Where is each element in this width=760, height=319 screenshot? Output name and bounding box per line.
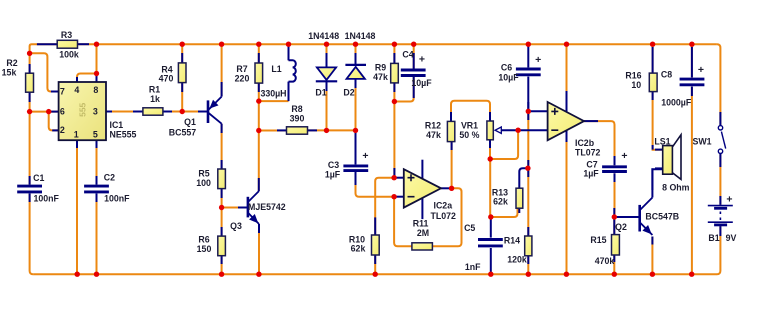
capacitor C1	[17, 186, 42, 192]
wire IC2b plus node down to node J	[527, 111, 529, 168]
wire node B to R6	[221, 208, 223, 237]
op-amp IC2b TL072	[548, 102, 584, 140]
svg-text:B1: B1	[708, 233, 719, 243]
wire D2 bottom to node F	[355, 79, 357, 131]
battery B1 9V	[708, 206, 733, 225]
svg-text:1k: 1k	[150, 94, 160, 104]
wire R1 to node A	[163, 111, 182, 113]
svg-text:TL072: TL072	[575, 147, 601, 157]
svg-text:+: +	[621, 150, 627, 162]
svg-text:Q2: Q2	[615, 222, 627, 232]
wire D2 top to supply	[355, 44, 357, 65]
wire R12 top over to VR1 top	[451, 101, 490, 122]
wire C1 bottom to ground rail	[30, 194, 33, 275]
op IC1 NE555 body	[59, 82, 106, 140]
svg-text:47k: 47k	[373, 72, 388, 82]
svg-text:15k: 15k	[2, 68, 17, 78]
resistor R5	[218, 169, 226, 189]
transistor Q2 BC547B	[640, 198, 653, 236]
wire node H down to node I	[489, 159, 491, 217]
wire node G to IC2a non-inverting input	[393, 102, 395, 178]
svg-text:150: 150	[197, 244, 212, 254]
svg-text:C2: C2	[104, 173, 115, 183]
wire node D down to Q3 collector	[258, 131, 260, 192]
wire C4 top to supply	[413, 44, 415, 68]
wire node E to node F	[327, 129, 356, 131]
wire R15 bottom to ground	[613, 255, 615, 274]
wire Q1 emitter to supply	[221, 44, 223, 96]
svg-text:100k: 100k	[59, 49, 79, 59]
svg-text:47k: 47k	[426, 130, 441, 140]
wire node I hook to R13 bottom	[491, 208, 518, 217]
capacitor C7	[602, 167, 627, 172]
svg-text:100: 100	[196, 178, 211, 188]
wire top-left corner down to R2/R3 node	[30, 44, 32, 53]
svg-text:BC547B: BC547B	[645, 212, 679, 222]
wire bottom ground rail	[33, 273, 717, 275]
svg-text:SW1: SW1	[692, 137, 711, 147]
wire battery minus to bottom-right corner	[717, 226, 721, 274]
op-amp IC2a TL072	[421, 160, 423, 219]
wire C6 bottom to IC2b plus node	[527, 77, 529, 112]
svg-text:C5: C5	[464, 223, 475, 233]
svg-text:5: 5	[93, 130, 98, 140]
wire R6 bottom to ground	[221, 256, 223, 275]
svg-text:50 %: 50 %	[459, 130, 479, 140]
junction dots middle	[27, 51, 32, 56]
wire 555 pin 1 to ground	[76, 140, 78, 274]
wire SW1 bottom to battery plus	[719, 154, 721, 205]
wire R14 bottom to ground	[527, 256, 529, 274]
svg-text:1µF: 1µF	[325, 169, 341, 179]
svg-text:1nF: 1nF	[465, 262, 481, 272]
svg-text:10µF: 10µF	[411, 78, 432, 88]
wire node C to node D	[258, 101, 260, 130]
switch SW1	[718, 126, 722, 154]
wire C5 bottom to ground	[490, 248, 492, 274]
svg-text:3: 3	[93, 107, 98, 117]
wire node I to C5	[490, 217, 492, 238]
svg-text:62k: 62k	[351, 244, 366, 254]
wire R16 top to supply	[652, 44, 654, 73]
wire R5 bottom to node B	[221, 189, 223, 208]
wire R11 right to output branch	[432, 188, 461, 246]
svg-text:+: +	[698, 64, 704, 76]
wire node B to Q3 base	[222, 207, 248, 209]
wire Q3 emitter to ground	[258, 224, 260, 274]
svg-text:+: +	[362, 150, 368, 162]
svg-text:R9: R9	[375, 63, 386, 73]
wire node K to R15	[613, 217, 615, 235]
svg-text:NE555: NE555	[110, 129, 137, 139]
svg-text:1N4148: 1N4148	[345, 31, 376, 41]
wire 555 pin 3 output to R1	[106, 111, 143, 113]
wire D1 anode to supply	[326, 44, 328, 67]
wire R9 top to supply	[393, 44, 395, 63]
wire R7 bottom to node C	[258, 83, 260, 101]
wire Q2 emitter to ground	[651, 237, 653, 275]
wire D1 cathode to node E	[326, 81, 328, 130]
wire 555 pin 8 to supply	[96, 44, 98, 82]
svg-text:TL072: TL072	[431, 211, 457, 221]
svg-text:R14: R14	[504, 236, 520, 246]
svg-text:10: 10	[631, 80, 641, 90]
resistor R1	[143, 108, 163, 115]
lead segments near components	[37, 43, 57, 45]
resistor R7	[255, 63, 263, 83]
wire C6 top to supply	[527, 44, 529, 67]
svg-text:100nF: 100nF	[34, 194, 60, 204]
wire VR1 wiper loop to node H	[490, 130, 518, 159]
svg-text:LS1: LS1	[654, 137, 670, 147]
svg-text:1: 1	[74, 130, 79, 140]
wire node to 555 pin 6	[30, 111, 59, 113]
wire node D to R8	[259, 130, 287, 132]
wire R8 right to node E	[308, 129, 327, 131]
svg-text:8: 8	[93, 85, 98, 95]
svg-text:C6: C6	[501, 63, 512, 73]
wire IC2a plus input to R10 branch	[375, 178, 394, 235]
wire 555 pin 4 to pin8 node	[77, 74, 97, 83]
resistor R9	[391, 63, 399, 83]
wire C8 bottom to ground	[691, 87, 693, 275]
wire C3 bottom to IC2a inverting input	[356, 171, 395, 197]
wire L1 top to supply	[288, 44, 290, 60]
capacitor C5	[478, 240, 503, 246]
wire left vertical R2 branch	[29, 53, 31, 73]
svg-text:7: 7	[60, 87, 65, 97]
svg-text:330µH: 330µH	[260, 89, 286, 99]
capacitor C6	[516, 69, 541, 75]
wire C7 bottom to node K	[614, 173, 616, 217]
svg-text:120k: 120k	[507, 255, 527, 265]
svg-text:Q3: Q3	[230, 221, 242, 231]
svg-text:1000µF: 1000µF	[661, 98, 692, 108]
svg-text:R3: R3	[61, 30, 72, 40]
resistor R16	[649, 73, 657, 92]
diode D2 1N4148	[345, 65, 366, 79]
resistor R2	[26, 73, 34, 92]
junction dots bottom rail	[75, 272, 80, 277]
svg-text:1µF: 1µF	[583, 169, 599, 179]
wire R2 bottom to C1 node	[29, 92, 31, 111]
svg-text:390: 390	[290, 113, 305, 123]
svg-text:+: +	[726, 193, 732, 205]
resistor R6	[218, 236, 226, 256]
wire node J down to R14	[527, 168, 529, 236]
svg-text:C8: C8	[661, 70, 672, 80]
speaker LS1	[663, 146, 673, 175]
inductor L1	[289, 60, 296, 81]
resistor R4	[178, 63, 186, 83]
wire C1 top lead	[29, 112, 31, 185]
svg-text:C1: C1	[33, 173, 44, 183]
svg-text:8 Ohm: 8 Ohm	[662, 183, 690, 193]
wire node F to C3	[355, 130, 357, 164]
resistor R3	[57, 40, 77, 48]
wire node to 555 pin 7	[30, 53, 59, 91]
wire IC2b output to C7	[584, 121, 615, 165]
svg-text:R16: R16	[625, 71, 641, 81]
svg-text:9V: 9V	[726, 233, 737, 243]
capacitor C3	[343, 166, 368, 171]
wire VR1 bottom to node H	[489, 140, 491, 159]
svg-text:L1: L1	[271, 64, 281, 74]
wire node C to L1 bottom	[259, 100, 289, 102]
diode D1 1N4148	[316, 67, 337, 81]
wire 555 pin 5 to C2	[96, 140, 98, 184]
svg-text:6: 6	[60, 107, 65, 117]
svg-text:D1: D1	[315, 88, 326, 98]
svg-text:BC557: BC557	[169, 128, 196, 138]
transistor Q1 BC557	[208, 97, 222, 124]
svg-text:2: 2	[60, 125, 65, 135]
wire R9 bottom to node G	[393, 83, 395, 102]
wire R4 bottom to node A	[181, 83, 183, 112]
wire top-right corner to SW1	[717, 44, 721, 125]
svg-text:470: 470	[159, 74, 174, 84]
potentiometer VR1	[487, 121, 493, 140]
wire node A to Q1 base	[182, 111, 207, 113]
wire 555 pin2 tie to pin6	[49, 112, 59, 131]
resistor R13	[516, 188, 523, 208]
wire L1 bottom lead	[288, 82, 290, 102]
wire IC2b power from supply to ground	[566, 44, 568, 274]
svg-text:2M: 2M	[417, 228, 429, 238]
wire Q2 collector to LS1 minus	[652, 169, 662, 197]
svg-text:470k: 470k	[595, 256, 615, 266]
svg-text:220: 220	[235, 73, 250, 83]
junction dots top rail	[94, 42, 99, 47]
wire Q1 collector to R5	[221, 124, 223, 169]
svg-text:C4: C4	[402, 49, 413, 59]
wire top supply rail	[32, 43, 717, 45]
svg-text:100nF: 100nF	[104, 193, 130, 203]
svg-text:R15: R15	[590, 235, 606, 245]
svg-text:Q1: Q1	[184, 117, 196, 127]
wire R13 top to node J	[519, 168, 528, 188]
resistor R10	[372, 235, 380, 255]
resistor R12	[447, 121, 454, 141]
svg-text:IC2a: IC2a	[434, 201, 453, 211]
wire C2 bottom to ground	[96, 194, 98, 275]
svg-text:R1: R1	[149, 85, 160, 95]
wire C8 top to supply	[691, 44, 693, 77]
svg-text:+: +	[419, 53, 425, 65]
svg-text:MJE5742: MJE5742	[248, 202, 286, 212]
svg-text:D2: D2	[343, 88, 354, 98]
wire IC2a output node up to R12	[451, 142, 453, 189]
wire IC2a minus input down to R11 left	[394, 197, 412, 247]
svg-text:+: +	[535, 54, 541, 66]
svg-text:R2: R2	[6, 58, 17, 68]
wire R16 bottom to LS1 plus	[653, 92, 663, 150]
svg-text:1N4148: 1N4148	[308, 31, 339, 41]
resistor R15	[612, 235, 620, 255]
wire R7 top to supply	[258, 44, 260, 63]
capacitor C2	[84, 186, 109, 192]
wire node K to Q2 base	[614, 216, 639, 218]
wire C4 bottom to node G	[394, 77, 413, 102]
svg-text:555: 555	[78, 102, 88, 116]
svg-text:62k: 62k	[493, 197, 508, 207]
capacitor C4	[401, 70, 426, 76]
transistor Q3 MJE5742	[248, 191, 259, 224]
resistor R14	[525, 236, 532, 256]
wire R10 bottom to ground	[374, 255, 376, 274]
svg-text:4: 4	[74, 85, 79, 95]
svg-text:10µF: 10µF	[498, 72, 519, 82]
capacitor C8	[680, 79, 705, 85]
wire R4 top to supply	[181, 44, 183, 63]
resistor R8	[287, 127, 308, 134]
resistor R11	[412, 243, 433, 250]
